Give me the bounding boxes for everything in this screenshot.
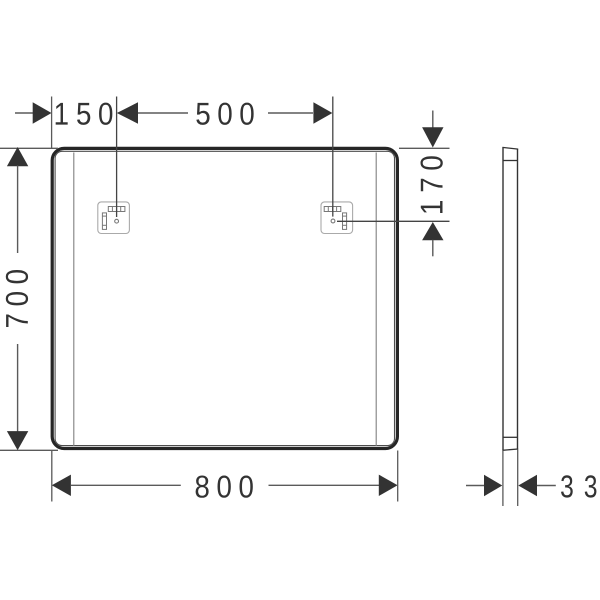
side view profile left edge [502, 147, 504, 450]
wall bracket left plate [98, 202, 130, 234]
dimension 33 arrow pointing right [484, 475, 502, 496]
dimension 150/500 shared arrow pointing left [117, 102, 138, 123]
dimension 700 arrow up [7, 147, 28, 166]
dimension 150 extension line left [51, 97, 53, 149]
side view profile right edge [517, 149, 519, 449]
dimension 800 line left segment [71, 484, 181, 486]
dimension 33 arrow pointing left [518, 475, 537, 496]
dimension 700 bottom extension line [0, 449, 58, 451]
dimension 150 text [56, 103, 68, 125]
dimension 170 text (rotated) [421, 156, 443, 213]
dimension 700 arrow down [7, 431, 28, 450]
dimension 500 line right segment [268, 112, 313, 114]
dimension 500 extension line to right bracket [332, 97, 334, 217]
dimension 800 line right segment [269, 484, 380, 486]
dimension 500 arrow right [313, 102, 332, 123]
dimension 500 text [196, 103, 209, 125]
dimension 170 top extension line [399, 147, 450, 149]
dimension 150 arrow left [33, 102, 52, 123]
dimension 150/500 shared extension line to left bracket [116, 97, 118, 218]
dimension 700 text (rotated) [6, 270, 28, 327]
wall bracket right plate [321, 202, 353, 234]
dimension 700 line lower segment [17, 344, 19, 432]
mirror front view outer outline [52, 148, 397, 448]
side view top separator line [503, 160, 518, 162]
dimension 170 arrow up [422, 222, 443, 240]
dimension 700 top extension line [0, 147, 58, 149]
dimension 170 bottom extension line from bracket [337, 220, 450, 222]
dimension 33 extension line right [517, 450, 519, 507]
mirror front view inner chamfer contour [55, 151, 394, 445]
dimension 800 arrow right [379, 475, 398, 496]
dimension 33 leader line right [537, 485, 556, 487]
dimension 33 extension line left [502, 451, 504, 506]
side view bottom separator line [503, 436, 518, 438]
side view profile top edge (slanted) [502, 147, 518, 149]
side view profile bottom edge (slanted) [502, 449, 518, 450]
dimension 150 leader line left [15, 112, 33, 114]
dimension 800 extension line left [51, 451, 53, 502]
dimension 170 arrow down [422, 127, 443, 147]
mirror glass inner vertical line left [73, 153, 75, 447]
dimension 170 line bottom segment [432, 240, 434, 256]
dimension 500 line left segment [138, 112, 188, 114]
mirror glass inner vertical line right [375, 153, 377, 447]
dimension 700 line upper segment [17, 166, 19, 254]
dimension 33 text [561, 475, 573, 497]
dimension 33 leader line left [466, 485, 485, 487]
dimension 800 text [196, 476, 209, 498]
dimension 800 arrow left [52, 475, 71, 496]
dimension 800 extension line right [397, 451, 399, 502]
dimension 170 line top segment [432, 111, 434, 128]
